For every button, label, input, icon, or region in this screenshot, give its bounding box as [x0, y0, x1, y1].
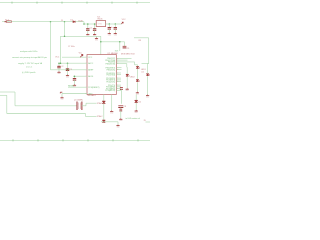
svg-text:GND: GND: [66, 76, 69, 78]
svg-text:connect mic preamp to input AD: connect mic preamp to input ADC0 pin: [12, 56, 47, 59]
svg-text:78L05: 78L05: [97, 19, 102, 21]
svg-text:XTAL2: XTAL2: [97, 115, 103, 118]
svg-text:(c) 2010 jsmith: (c) 2010 jsmith: [22, 71, 35, 74]
svg-text:VI VO: VI VO: [98, 24, 103, 26]
svg-text:PB3(MOSI): PB3(MOSI): [106, 63, 116, 65]
svg-text:GND: GND: [60, 99, 63, 101]
svg-text:PC6(RESET): PC6(RESET): [88, 87, 100, 89]
svg-text:GND: GND: [110, 112, 113, 114]
svg-text:VCC: VCC: [55, 57, 60, 59]
svg-text:1u: 1u: [111, 27, 113, 29]
svg-text:MOSI MISO SCK: MOSI MISO SCK: [121, 53, 136, 55]
svg-text:Q1 16MHz: Q1 16MHz: [74, 99, 83, 101]
svg-text:GND: GND: [95, 39, 98, 41]
svg-text:PD4(XCK): PD4(XCK): [106, 81, 115, 83]
svg-text:PD1(TXD): PD1(TXD): [106, 75, 115, 77]
svg-text:GND: GND: [108, 34, 111, 36]
svg-text:GND: GND: [116, 126, 119, 128]
svg-text:VCC: VCC: [122, 19, 127, 21]
svg-text:GND: GND: [57, 73, 60, 75]
svg-text:VCC: VCC: [88, 57, 93, 59]
svg-text:LED2: LED2: [130, 77, 135, 79]
svg-text:D2: D2: [139, 102, 141, 104]
svg-text:C7 100n: C7 100n: [68, 46, 75, 48]
svg-text:red: red: [141, 71, 144, 74]
svg-text:AVCC: AVCC: [88, 62, 94, 65]
svg-text:GND: GND: [119, 120, 122, 122]
svg-text:PB5(SCK): PB5(SCK): [106, 69, 115, 71]
svg-text:GND: GND: [88, 93, 93, 95]
svg-text:PC0(ADC0): PC0(ADC0): [105, 89, 115, 92]
svg-text:R9: R9: [139, 40, 141, 42]
svg-text:supply 7..12V DC input 1A: supply 7..12V DC input 1A: [18, 62, 43, 65]
svg-text:ADC6: ADC6: [88, 75, 93, 78]
svg-text:C1: C1: [90, 27, 92, 29]
svg-text:to LED matrix col: to LED matrix col: [126, 117, 141, 120]
svg-text:RESET: RESET: [68, 86, 75, 88]
svg-text:GND: GND: [135, 112, 138, 114]
svg-text:GND: GND: [146, 96, 149, 98]
svg-text:B140: B140: [78, 20, 82, 22]
svg-text:analyzer with LEDs: analyzer with LEDs: [20, 50, 38, 53]
svg-text:GND: GND: [114, 34, 117, 36]
svg-text:XTAL1: XTAL1: [97, 102, 103, 105]
svg-text:C3: C3: [70, 69, 72, 71]
svg-text:GND: GND: [126, 90, 129, 92]
svg-text:C9: C9: [127, 48, 129, 50]
svg-text:AREF: AREF: [88, 69, 94, 72]
svg-text:rev 1.1: rev 1.1: [26, 65, 33, 68]
svg-text:C8: C8: [124, 106, 126, 108]
svg-text:C2: C2: [61, 66, 63, 68]
svg-text:D1: D1: [71, 19, 73, 21]
